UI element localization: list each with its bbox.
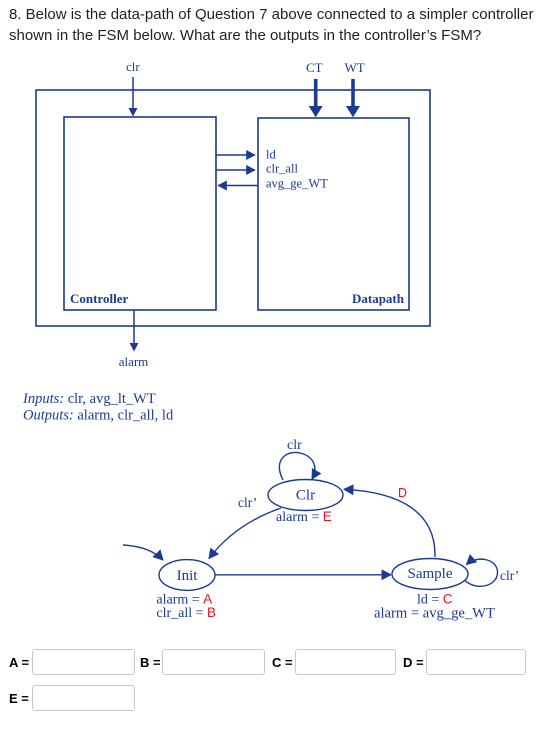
svg-text:clr: clr <box>126 59 140 74</box>
svg-text:Sample: Sample <box>408 566 453 582</box>
wire ld arrow controller to datapath <box>216 154 255 156</box>
wire avg_ge_WT arrow datapath to controller <box>218 185 258 187</box>
svg-text:Clr: Clr <box>296 488 315 504</box>
svg-text:clr_all = B: clr_all = B <box>156 605 216 621</box>
transition Sample to Clr, label D <box>344 489 435 557</box>
transition Init to Sample <box>215 574 391 576</box>
controller box <box>64 117 216 310</box>
answer field E <box>9 691 29 706</box>
state Sample <box>392 559 468 590</box>
transition self-loop clr' on Sample <box>465 559 498 586</box>
transition self-loop clr on Clr <box>279 452 315 480</box>
transition Clr to Init, label clr' <box>209 508 281 559</box>
svg-text:Init: Init <box>177 568 199 584</box>
state Init <box>159 560 215 591</box>
svg-text:D: D <box>398 486 407 500</box>
wire WT arrow into datapath <box>351 79 355 106</box>
answer field A <box>9 655 29 670</box>
answer field B <box>140 655 161 670</box>
svg-text:WT: WT <box>345 60 365 75</box>
wire clr_all arrow controller to datapath <box>216 169 255 171</box>
svg-text:clr_all: clr_all <box>266 162 298 176</box>
svg-text:Controller: Controller <box>70 291 128 306</box>
svg-text:Inputs: clr, avg_lt_WT: Inputs: clr, avg_lt_WT <box>22 391 156 407</box>
state Clr <box>268 480 343 511</box>
svg-text:alarm = avg_ge_WT: alarm = avg_ge_WT <box>374 606 495 622</box>
svg-text:alarm = E: alarm = E <box>276 509 332 525</box>
svg-text:clr’: clr’ <box>500 568 519 583</box>
transition initial entry arrow <box>123 545 163 560</box>
svg-text:CT: CT <box>306 60 323 75</box>
wire alarm output arrow <box>133 310 135 344</box>
svg-text:ld: ld <box>266 148 276 162</box>
svg-text:Datapath: Datapath <box>352 291 405 306</box>
svg-text:clr’: clr’ <box>238 495 257 510</box>
wire CT arrow into datapath <box>314 79 318 106</box>
svg-text:Outputs: alarm, clr_all, ld: Outputs: alarm, clr_all, ld <box>23 408 174 424</box>
outer box <box>36 90 430 326</box>
svg-text:avg_ge_WT: avg_ge_WT <box>266 177 328 191</box>
svg-text:alarm: alarm <box>119 354 149 369</box>
datapath box <box>258 118 409 310</box>
answer field D <box>403 655 424 670</box>
answer field C <box>272 655 293 670</box>
svg-text:clr: clr <box>287 438 302 453</box>
wire clr arrow into controller <box>132 77 134 109</box>
